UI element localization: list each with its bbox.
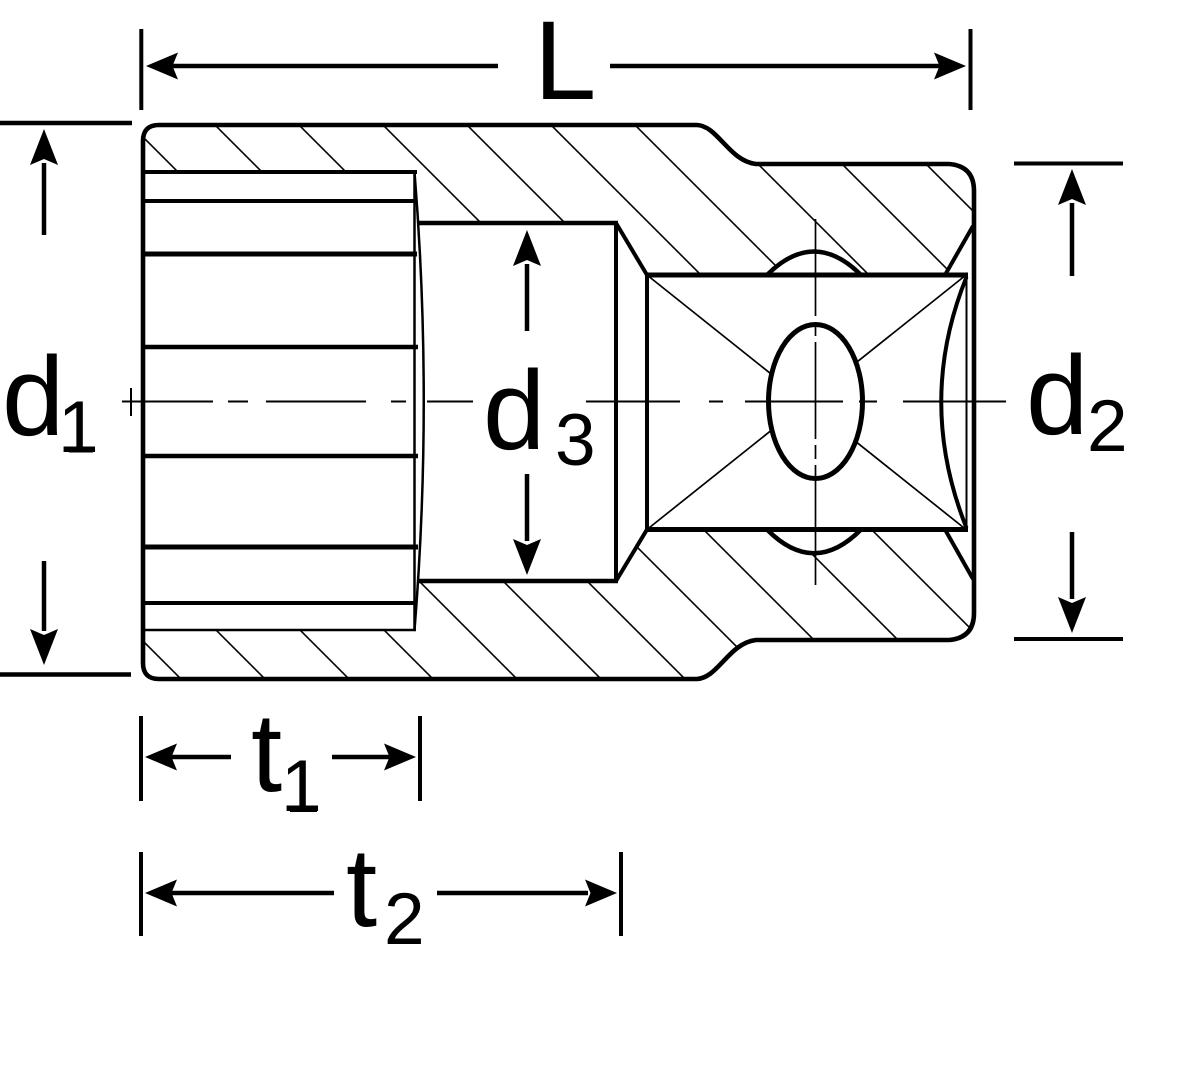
- serration right edge (mouth bottom): [413, 172, 416, 630]
- vertical centerline of drive: [815, 219, 817, 316]
- svg-text:t: t: [346, 825, 377, 950]
- dimension d2: [1014, 164, 1123, 640]
- svg-text:1: 1: [58, 387, 99, 468]
- dimension d1: [0, 123, 132, 675]
- hatching (45 deg section lines): [0, 100, 1195, 700]
- d3 bore outline: [419, 221, 618, 226]
- svg-text:2: 2: [384, 879, 425, 960]
- end-face chamfer slants: [945, 226, 973, 275]
- ball cross-hole ellipse: [769, 325, 863, 479]
- svg-text:L: L: [534, 0, 596, 123]
- serration lines (12pt profile): [141, 172, 418, 630]
- svg-text:d: d: [2, 334, 64, 459]
- dimension L: [141, 29, 970, 110]
- svg-text:3: 3: [555, 400, 596, 481]
- svg-text:2: 2: [1087, 386, 1128, 467]
- dimension t2: [141, 852, 621, 936]
- concave end-face curve: [941, 277, 966, 528]
- taper bore to square: [616, 223, 647, 275]
- square drive hole: [647, 273, 968, 278]
- dimension d3: [525, 264, 530, 541]
- svg-text:1: 1: [281, 746, 322, 827]
- centerline left tick: [130, 388, 132, 416]
- svg-text:d: d: [1026, 333, 1088, 458]
- ball hole bumps top/bottom: [767, 252, 861, 276]
- svg-text:t: t: [251, 690, 282, 815]
- square diagonals: [647, 275, 966, 530]
- dimension t1: [141, 716, 420, 801]
- outer body outline: [143, 125, 974, 679]
- horizontal centerline: [122, 401, 213, 403]
- svg-text:d: d: [483, 348, 545, 473]
